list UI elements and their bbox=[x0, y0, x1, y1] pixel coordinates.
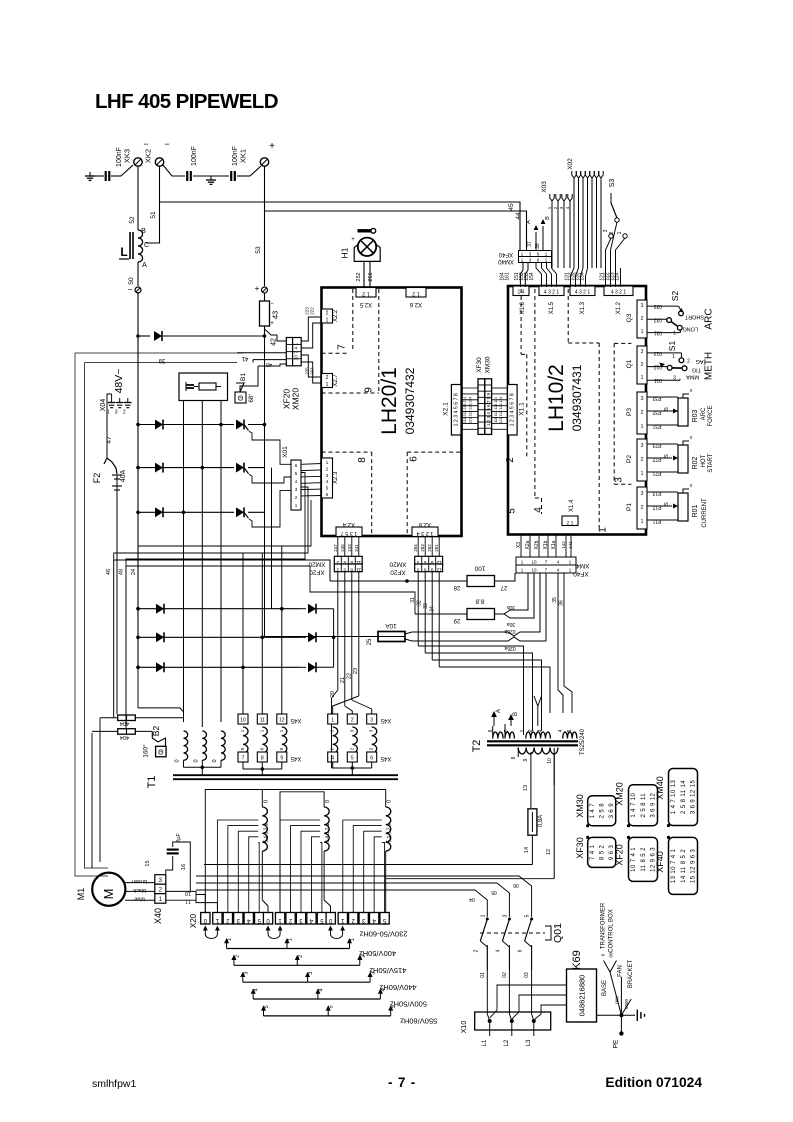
svg-text:2: 2 bbox=[336, 559, 339, 565]
BRACKET branch bbox=[621, 999, 631, 1015]
rectifier diodes left column bbox=[155, 420, 163, 430]
svg-text:X01: X01 bbox=[282, 446, 289, 458]
svg-text:12: 12 bbox=[546, 849, 552, 855]
transformer T2 top windings bbox=[493, 732, 503, 739]
svg-text:241: 241 bbox=[354, 544, 359, 552]
svg-text:243: 243 bbox=[347, 544, 352, 552]
svg-text:5: 5 bbox=[264, 1005, 270, 1008]
svg-text:2: 2 bbox=[234, 955, 240, 958]
svg-text:1: 1 bbox=[598, 527, 609, 533]
switch S2 ARC bbox=[647, 305, 679, 307]
svg-text:P21: P21 bbox=[652, 470, 661, 476]
svg-text:R03: R03 bbox=[692, 409, 699, 422]
svg-text:3: 3 bbox=[243, 972, 249, 975]
svg-text:1: 1 bbox=[641, 519, 644, 525]
svg-text:35: 35 bbox=[552, 597, 558, 603]
XM20 right side wires to X2.2 X2.7 bbox=[301, 317, 321, 341]
svg-text:04: 04 bbox=[469, 896, 475, 902]
terminal minus mid bbox=[135, 287, 141, 293]
svg-text:5: 5 bbox=[329, 1005, 335, 1008]
svg-text:13: 13 bbox=[523, 785, 529, 791]
svg-text:25: 25 bbox=[367, 638, 373, 645]
svg-text:8: 8 bbox=[350, 567, 353, 573]
transformer T1 secondary coils bbox=[184, 731, 188, 760]
connector X2.8 bbox=[412, 527, 438, 537]
svg-text:2: 2 bbox=[351, 718, 354, 724]
svg-text:AG: AG bbox=[696, 358, 704, 364]
svg-text:B: B bbox=[545, 216, 551, 220]
svg-text:011: 011 bbox=[654, 377, 662, 383]
T1 secondary star point bbox=[183, 760, 185, 767]
bus wires vertical group1 bbox=[137, 292, 139, 668]
connector X45 group2 bottom bbox=[328, 752, 338, 762]
svg-text:11 8 5 2: 11 8 5 2 bbox=[641, 847, 647, 872]
capacitor 404 upper bbox=[100, 717, 118, 719]
terminal XK1 bbox=[260, 158, 268, 166]
svg-text:K69: K69 bbox=[571, 950, 583, 970]
svg-text:8: 8 bbox=[511, 756, 517, 759]
svg-text:100nF: 100nF bbox=[191, 146, 198, 166]
section 6 dashed bbox=[407, 451, 461, 453]
T1 primary tap fans bbox=[217, 820, 258, 913]
svg-text:B: B bbox=[513, 712, 519, 716]
capacitor 100nF at XK3 bbox=[90, 175, 104, 177]
svg-text:5 4 3 2 1: 5 4 3 2 1 bbox=[387, 823, 393, 843]
svg-text:6: 6 bbox=[518, 949, 524, 952]
svg-text:L2: L2 bbox=[504, 1039, 510, 1046]
rectifier diode group 2 rails bbox=[138, 608, 300, 610]
svg-text:33: 33 bbox=[423, 603, 429, 609]
svg-text:XF30: XF30 bbox=[575, 837, 585, 859]
horizontal bundle X01 to left verticals bbox=[138, 500, 311, 546]
svg-text:38: 38 bbox=[535, 243, 541, 249]
rectifier diode group 1 rails bbox=[138, 424, 234, 426]
svg-text:13 10 7 4 1: 13 10 7 4 1 bbox=[671, 848, 677, 883]
wire bundle below blocks bbox=[114, 560, 330, 581]
group 2 right connections bbox=[317, 608, 334, 610]
wire 39 run bbox=[138, 362, 300, 364]
wire 252 251 to X2.5 bbox=[363, 261, 365, 287]
svg-text:P1: P1 bbox=[626, 503, 633, 511]
svg-text:- 7 -: - 7 - bbox=[388, 1075, 416, 1090]
svg-text:2: 2 bbox=[641, 457, 644, 463]
table XM30 bbox=[588, 796, 616, 826]
connector X1.5 bbox=[539, 286, 564, 296]
svg-text:blue: blue bbox=[134, 896, 144, 902]
connector X01 bbox=[291, 460, 301, 510]
T1 primary top feeds bbox=[205, 790, 385, 913]
svg-text:01: 01 bbox=[480, 972, 486, 978]
svg-text:11: 11 bbox=[356, 567, 361, 573]
svg-text:404: 404 bbox=[120, 720, 129, 726]
svg-text:R01: R01 bbox=[692, 504, 699, 517]
svg-text:P3: P3 bbox=[626, 408, 633, 416]
svg-text:45: 45 bbox=[508, 203, 515, 211]
svg-text:2: 2 bbox=[326, 375, 329, 381]
svg-text:1: 1 bbox=[673, 331, 676, 337]
connector X1.4 bbox=[562, 516, 578, 526]
svg-text:1 2: 1 2 bbox=[566, 520, 573, 526]
capacitor 100nF at XK1 bbox=[230, 171, 232, 181]
connector Q1 bbox=[637, 346, 647, 384]
svg-text:−: − bbox=[164, 139, 169, 149]
wire 53 from XK1 bbox=[264, 166, 266, 286]
svg-text:XK1: XK1 bbox=[239, 149, 248, 163]
svg-text:P12: P12 bbox=[652, 504, 661, 510]
svg-text:smlhfpw1: smlhfpw1 bbox=[92, 1078, 137, 1090]
terminal plus mid bbox=[262, 287, 268, 293]
svg-text:4: 4 bbox=[558, 729, 564, 732]
svg-text:B1: B1 bbox=[240, 373, 247, 381]
wire 14 bbox=[531, 835, 533, 864]
svg-text:154: 154 bbox=[529, 272, 535, 281]
svg-text:10 7 4 1: 10 7 4 1 bbox=[631, 847, 637, 872]
X45 group1 bottom joins bbox=[242, 762, 244, 769]
connector X2.1 bbox=[451, 385, 461, 436]
wire 51 from XK2 bbox=[146, 166, 160, 243]
svg-text:10: 10 bbox=[531, 568, 537, 573]
svg-text:6: 6 bbox=[424, 567, 427, 573]
svg-text:2: 2 bbox=[505, 457, 516, 463]
svg-text:XF20: XF20 bbox=[390, 568, 406, 575]
wire from F2 down bbox=[116, 493, 118, 714]
svg-text:3: 3 bbox=[641, 491, 644, 497]
PE lead bbox=[620, 1015, 622, 1031]
svg-text:23: 23 bbox=[353, 668, 359, 674]
svg-text:3: 3 bbox=[417, 559, 420, 565]
svg-text:1 2 3 4 5 6 7 8: 1 2 3 4 5 6 7 8 bbox=[510, 393, 516, 426]
connector X45 group1 top bbox=[238, 714, 248, 724]
svg-text:X2.7: X2.7 bbox=[333, 374, 339, 387]
svg-text:X03: X03 bbox=[541, 181, 548, 193]
svg-text:Θ: Θ bbox=[158, 750, 164, 757]
svg-text:3 6 9 12 15: 3 6 9 12 15 bbox=[690, 780, 696, 815]
svg-text:X40: X40 bbox=[153, 908, 163, 924]
svg-text:−: − bbox=[128, 285, 133, 294]
svg-text:2 5 8 11: 2 5 8 11 bbox=[641, 793, 647, 818]
svg-text:0: 0 bbox=[193, 759, 199, 762]
T1 primary winding 1 bbox=[262, 807, 267, 851]
thyristor gate wires to X01 bbox=[249, 431, 291, 464]
svg-text:ARC: ARC bbox=[701, 407, 707, 420]
svg-text:12: 12 bbox=[279, 718, 285, 724]
svg-text:LH20/1: LH20/1 bbox=[378, 367, 401, 435]
motor wires and color labels bbox=[125, 882, 155, 884]
svg-text:3: 3 bbox=[115, 410, 118, 416]
svg-text:5: 5 bbox=[507, 508, 518, 514]
group 2 taps to X45 left bbox=[241, 666, 245, 670]
terminal XK2 bbox=[155, 158, 163, 166]
fuse F2 40A bbox=[107, 458, 117, 474]
wire 44 top run bbox=[265, 211, 527, 250]
svg-text:METH: METH bbox=[704, 352, 715, 380]
svg-text:S1: S1 bbox=[667, 341, 677, 352]
wires 04 05 06 to Q01 bbox=[196, 890, 487, 917]
svg-text:50: 50 bbox=[128, 277, 135, 285]
svg-text:032: 032 bbox=[654, 316, 663, 322]
svg-text:10A: 10A bbox=[385, 622, 397, 629]
svg-text:1 4 7 10: 1 4 7 10 bbox=[631, 792, 637, 817]
wire 42 bbox=[264, 326, 266, 336]
svg-text:XK3: XK3 bbox=[123, 149, 132, 163]
wires down left edge to motor bbox=[91, 733, 93, 868]
diode group 2 left column bbox=[156, 604, 164, 614]
svg-text:1: 1 bbox=[326, 318, 329, 324]
svg-text:0000: 0000 bbox=[624, 998, 629, 1009]
svg-text:47: 47 bbox=[106, 436, 113, 444]
svg-text:B: B bbox=[141, 228, 146, 235]
svg-text:03: 03 bbox=[524, 972, 530, 978]
svg-text:10: 10 bbox=[185, 890, 191, 896]
resistor 100 bbox=[330, 580, 467, 582]
svg-text:10: 10 bbox=[531, 560, 537, 565]
wires X10 to K69 bbox=[490, 985, 567, 1021]
table XM40 map bbox=[669, 769, 698, 826]
X45 group2 coils bbox=[333, 727, 338, 753]
svg-text:H1: H1 bbox=[340, 247, 350, 258]
svg-text:XM20: XM20 bbox=[615, 782, 625, 806]
svg-text:1: 1 bbox=[480, 914, 486, 917]
svg-text:9: 9 bbox=[431, 567, 434, 573]
T2 core bbox=[487, 740, 578, 742]
svg-text:9: 9 bbox=[364, 387, 375, 393]
svg-text:XF20: XF20 bbox=[615, 844, 625, 866]
svg-text:12: 12 bbox=[436, 559, 442, 565]
svg-text:14: 14 bbox=[524, 847, 530, 853]
svg-text:10: 10 bbox=[547, 758, 553, 764]
svg-text:X2.5: X2.5 bbox=[359, 301, 372, 307]
svg-text:1 2 3 4 5 6 7 8: 1 2 3 4 5 6 7 8 bbox=[454, 393, 460, 426]
svg-text:2: 2 bbox=[528, 729, 534, 732]
fuse 0.8A bbox=[528, 809, 537, 835]
svg-text:2: 2 bbox=[326, 311, 329, 317]
svg-text:5: 5 bbox=[343, 567, 346, 573]
svg-text:X2.6: X2.6 bbox=[409, 301, 422, 307]
connector X1.6 bbox=[513, 286, 529, 296]
svg-text:3: 3 bbox=[502, 914, 508, 917]
svg-text:Q3: Q3 bbox=[626, 313, 633, 322]
motor M1 bbox=[92, 873, 125, 906]
svg-text:XM30: XM30 bbox=[575, 794, 585, 818]
svg-text:2: 2 bbox=[336, 567, 339, 573]
svg-text:48V~: 48V~ bbox=[113, 369, 125, 394]
connector XF40 XM40 top bbox=[519, 251, 552, 257]
vertical feeds to X45 area from bundle bbox=[242, 553, 244, 667]
svg-text:S: S bbox=[664, 407, 670, 411]
svg-text:CURRENT: CURRENT bbox=[702, 498, 708, 528]
svg-text:282: 282 bbox=[427, 544, 432, 552]
svg-text:2 5 8 11 14: 2 5 8 11 14 bbox=[681, 780, 687, 814]
svg-text:BASE: BASE bbox=[602, 980, 608, 996]
wire 12 bbox=[553, 753, 555, 879]
T1 primary winding 2 bbox=[324, 807, 329, 851]
svg-text:1: 1 bbox=[520, 729, 526, 732]
svg-text:XM20: XM20 bbox=[389, 560, 406, 567]
svg-text:8: 8 bbox=[357, 457, 368, 463]
svg-text:1 4 7 10 13: 1 4 7 10 13 bbox=[671, 780, 677, 815]
potentiometer R02 HOT START bbox=[647, 443, 678, 445]
svg-text:X1.1: X1.1 bbox=[519, 402, 526, 416]
connector X40 bbox=[155, 875, 166, 885]
ground at XK3 filter bbox=[89, 172, 91, 176]
svg-text:8 5 2: 8 5 2 bbox=[600, 844, 606, 860]
svg-text:02: 02 bbox=[502, 972, 508, 978]
svg-text:S2: S2 bbox=[670, 291, 680, 302]
svg-text:46: 46 bbox=[106, 569, 112, 575]
svg-text:43: 43 bbox=[271, 311, 280, 319]
svg-text:START: START bbox=[708, 453, 714, 472]
svg-text:TRANSFORMER: TRANSFORMER bbox=[601, 902, 607, 949]
switch Q01 bbox=[486, 918, 489, 921]
svg-text:28: 28 bbox=[453, 584, 460, 590]
svg-text:X45: X45 bbox=[380, 755, 391, 761]
svg-text:2: 2 bbox=[641, 316, 644, 322]
svg-text:M1: M1 bbox=[76, 888, 86, 901]
svg-text:0: 0 bbox=[175, 759, 181, 762]
svg-text:3: 3 bbox=[641, 443, 644, 449]
T2 secondary winding bbox=[518, 748, 558, 755]
svg-text:30a: 30a bbox=[507, 621, 516, 627]
svg-text:XF40: XF40 bbox=[498, 251, 513, 257]
potentiometer R01 CURRENT bbox=[647, 491, 678, 493]
svg-text:27: 27 bbox=[500, 584, 507, 590]
svg-text:281: 281 bbox=[434, 544, 439, 552]
wire 42 into XF20 bbox=[265, 326, 287, 341]
svg-text:121 122 123 124: 121 122 123 124 bbox=[499, 397, 503, 424]
svg-text:R02: R02 bbox=[692, 456, 699, 469]
svg-text:0: 0 bbox=[263, 800, 269, 803]
svg-text:0349307431: 0349307431 bbox=[570, 364, 584, 431]
wires 31-34 staircase to T2 bbox=[417, 572, 419, 646]
svg-text:L3: L3 bbox=[526, 1039, 532, 1046]
wires X2.4 to XM20 bbox=[337, 537, 339, 557]
svg-text:40A: 40A bbox=[120, 469, 127, 482]
svg-text:013: 013 bbox=[654, 350, 663, 356]
svg-text:53: 53 bbox=[255, 246, 262, 254]
svg-text:XM30: XM30 bbox=[485, 356, 492, 373]
svg-text:247: 247 bbox=[333, 544, 338, 552]
svg-text:4 3 2 1: 4 3 2 1 bbox=[575, 290, 591, 296]
svg-text:245: 245 bbox=[340, 544, 345, 552]
svg-text:LH10/2: LH10/2 bbox=[545, 364, 568, 432]
svg-text:8: 8 bbox=[261, 756, 264, 762]
svg-text:52: 52 bbox=[129, 216, 136, 224]
svg-text:X1.5: X1.5 bbox=[549, 301, 555, 314]
svg-text:3: 3 bbox=[641, 303, 644, 309]
svg-text:4: 4 bbox=[533, 507, 544, 513]
svg-text:XF40: XF40 bbox=[655, 851, 665, 873]
svg-text:11: 11 bbox=[185, 898, 191, 904]
svg-text:230V/50-60Hz: 230V/50-60Hz bbox=[359, 929, 407, 938]
svg-text:2: 2 bbox=[123, 410, 126, 416]
svg-text:X45: X45 bbox=[290, 717, 301, 723]
potentiometer R03 ARC FORCE bbox=[647, 396, 678, 398]
svg-text:4: 4 bbox=[318, 988, 324, 991]
svg-text:−: − bbox=[143, 139, 148, 149]
connector X2.4 bbox=[336, 527, 362, 537]
svg-text:L1: L1 bbox=[482, 1039, 488, 1046]
svg-text:A: A bbox=[526, 220, 532, 224]
inductor L bbox=[138, 230, 143, 262]
wires X2.1 to X1.1 bbox=[461, 387, 478, 389]
svg-text:5 4 3 2 1: 5 4 3 2 1 bbox=[263, 823, 269, 843]
resistor R snubber vertical bbox=[264, 293, 266, 301]
svg-text:4: 4 bbox=[254, 988, 260, 991]
svg-text:FAN: FAN bbox=[618, 965, 624, 977]
connector X1.3 bbox=[570, 286, 595, 296]
svg-text:0,8A: 0,8A bbox=[538, 815, 544, 827]
svg-text:9: 9 bbox=[280, 756, 283, 762]
svg-text:1: 1 bbox=[641, 471, 644, 477]
svg-text:X45: X45 bbox=[290, 755, 301, 761]
svg-text:5: 5 bbox=[391, 1005, 397, 1008]
svg-text:8: 8 bbox=[350, 559, 353, 565]
svg-text:7: 7 bbox=[504, 729, 510, 732]
connector Q3 bbox=[637, 300, 647, 338]
svg-text:X2.3: X2.3 bbox=[333, 471, 339, 484]
wires XF40 loop to X1.5 bbox=[536, 263, 542, 288]
svg-text:3: 3 bbox=[673, 376, 676, 382]
svg-text:+: + bbox=[270, 321, 274, 327]
voltage link 230V row arrows bbox=[203, 926, 208, 931]
table XF40 map bbox=[669, 837, 698, 894]
svg-text:PE: PE bbox=[613, 1039, 620, 1048]
svg-text:1: 1 bbox=[331, 718, 334, 724]
svg-text:0349307432: 0349307432 bbox=[403, 367, 417, 434]
wire 13 bbox=[530, 760, 532, 808]
svg-text:000: 000 bbox=[614, 996, 619, 1004]
module LH10/2 outline bbox=[508, 286, 646, 535]
svg-text:1: 1 bbox=[641, 329, 644, 335]
svg-text:2µF: 2µF bbox=[176, 833, 182, 843]
svg-text:16: 16 bbox=[181, 864, 187, 870]
svg-text:A: A bbox=[142, 262, 147, 269]
wire 39 into XF20 bottom bbox=[258, 364, 286, 366]
svg-text:L: L bbox=[120, 245, 127, 259]
connector P2 bbox=[637, 439, 647, 481]
svg-text:0: 0 bbox=[387, 800, 393, 803]
svg-text:X10: X10 bbox=[461, 1021, 468, 1034]
svg-text:31: 31 bbox=[410, 597, 416, 603]
svg-text:5: 5 bbox=[343, 559, 346, 565]
svg-text:P23: P23 bbox=[652, 442, 661, 448]
svg-text:68°: 68° bbox=[249, 393, 255, 403]
connector X45 group2 top bbox=[328, 714, 338, 724]
svg-text:4 3 2 1: 4 3 2 1 bbox=[544, 290, 560, 296]
svg-text:T2: T2 bbox=[471, 740, 483, 753]
ground tree bbox=[597, 1014, 636, 1016]
svg-text:P31: P31 bbox=[652, 423, 661, 429]
connector X2.6 bbox=[406, 288, 426, 298]
svg-text:BRACKET: BRACKET bbox=[628, 959, 634, 988]
T1 primary bottom leads bbox=[262, 851, 268, 913]
svg-text:XM40: XM40 bbox=[498, 258, 514, 264]
svg-text:221 222 223 224: 221 222 223 224 bbox=[469, 397, 473, 424]
svg-text:Θ: Θ bbox=[238, 396, 244, 403]
svg-text:X20: X20 bbox=[189, 913, 198, 928]
svg-text:F2: F2 bbox=[92, 473, 102, 484]
svg-text:2: 2 bbox=[473, 949, 479, 952]
svg-text:5: 5 bbox=[567, 729, 573, 732]
svg-text:X02: X02 bbox=[567, 158, 574, 170]
svg-text:3: 3 bbox=[537, 729, 543, 732]
wires 142 141 bbox=[565, 535, 567, 558]
svg-text:5: 5 bbox=[525, 914, 531, 917]
svg-text:2: 2 bbox=[687, 359, 690, 365]
ground symbol rotated bbox=[636, 1010, 638, 1021]
table XM20 map bbox=[629, 785, 658, 826]
svg-text:39: 39 bbox=[158, 357, 165, 363]
